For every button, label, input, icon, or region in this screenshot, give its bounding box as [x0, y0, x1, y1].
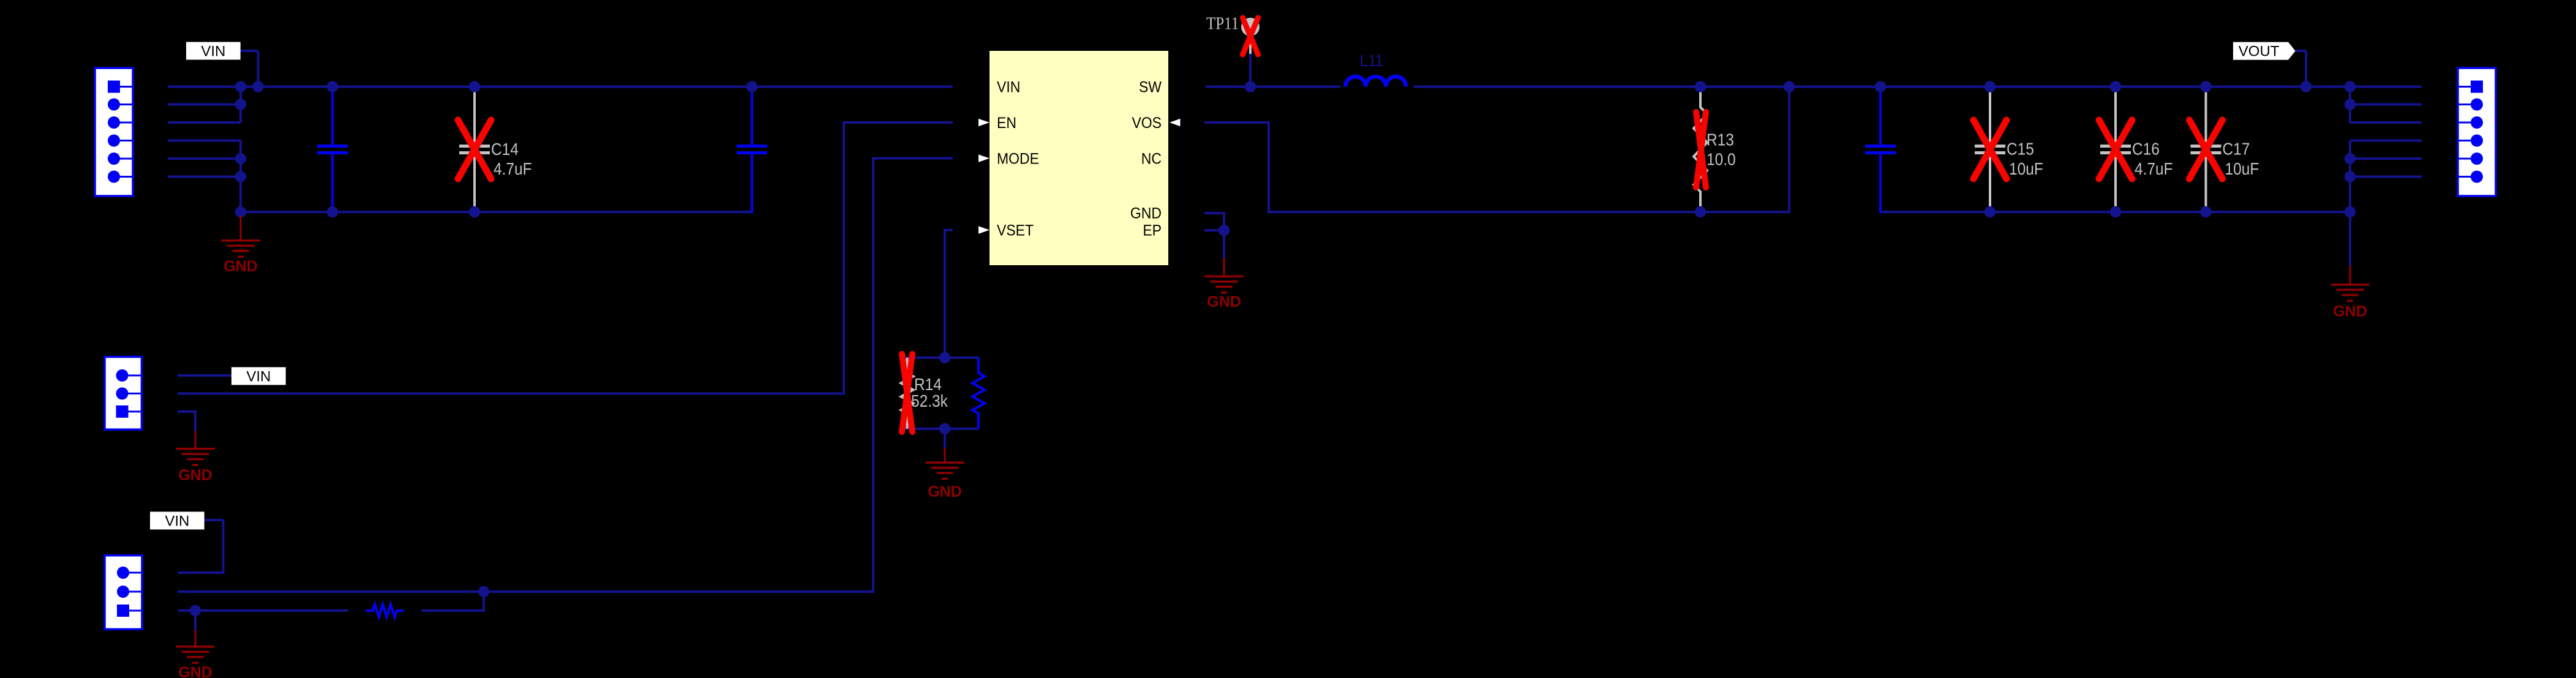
svg-text:SW: SW: [1139, 79, 1162, 96]
svg-text:VIN: VIN: [201, 43, 225, 60]
svg-text:R13: R13: [1707, 130, 1734, 149]
svg-text:C17: C17: [2223, 139, 2250, 159]
svg-text:GND: GND: [1130, 205, 1162, 222]
svg-text:GND: GND: [928, 483, 962, 500]
svg-text:VIN: VIN: [246, 369, 271, 385]
svg-text:GND: GND: [178, 664, 212, 678]
svg-text:C14: C14: [491, 140, 519, 159]
svg-text:VIN: VIN: [997, 79, 1020, 96]
svg-text:TP11: TP11: [1206, 13, 1239, 33]
svg-text:EN: EN: [997, 115, 1016, 132]
svg-text:52.3k: 52.3k: [911, 391, 948, 411]
svg-text:GND: GND: [223, 258, 258, 275]
svg-text:MODE: MODE: [997, 151, 1039, 168]
svg-text:GND: GND: [178, 467, 212, 484]
svg-text:VIN: VIN: [165, 513, 189, 530]
svg-text:10.0: 10.0: [1707, 149, 1736, 169]
svg-text:GND: GND: [1207, 293, 1241, 311]
svg-text:4.7uF: 4.7uF: [2135, 159, 2173, 179]
svg-text:10uF: 10uF: [2225, 159, 2259, 179]
svg-text:EP: EP: [1143, 222, 1162, 239]
svg-text:10uF: 10uF: [2009, 159, 2043, 179]
svg-text:VOS: VOS: [1132, 115, 1162, 132]
svg-text:GND: GND: [2333, 303, 2367, 320]
svg-text:C16: C16: [2132, 139, 2160, 159]
svg-text:NC: NC: [1141, 151, 1162, 168]
svg-text:VSET: VSET: [997, 222, 1034, 239]
svg-text:C15: C15: [2007, 139, 2034, 159]
svg-text:VOUT: VOUT: [2239, 43, 2280, 60]
svg-text:L11: L11: [1360, 52, 1383, 70]
svg-text:4.7uF: 4.7uF: [494, 159, 532, 179]
